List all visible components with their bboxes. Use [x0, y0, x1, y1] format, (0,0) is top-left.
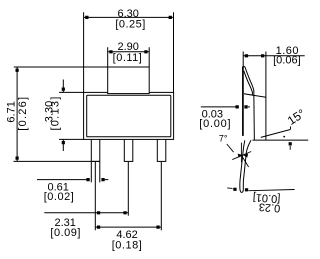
tab lead (front view, top) [108, 67, 150, 94]
svg-text:6.71: 6.71 [5, 101, 17, 122]
dimension 0.23 dim line left segment [227, 187, 232, 190]
side tab bend inner curve [244, 71, 253, 95]
dimension 6.71 arrowheads [16, 69, 19, 160]
7 deg leader line [227, 144, 234, 152]
side tab tip (top) [242, 66, 245, 68]
7 deg crossing measure line [232, 152, 251, 160]
dimension 6.71 dim line (left) [16, 67, 18, 161]
dimension 6.71 bottom extension line [14, 160, 100, 162]
7 deg arrowheads [238, 154, 249, 158]
svg-text:[0.11]: [0.11] [113, 52, 143, 64]
dimension 0.23 text (rotated 180) [258, 200, 280, 213]
side tab back face (thick) [242, 67, 244, 136]
dimension 0.03 tail [248, 106, 250, 108]
dimension 6.30 dim line [84, 16, 174, 18]
dimension 1.60 arrowheads [245, 54, 264, 57]
15 deg leader elbow [290, 126, 292, 129]
dimension 2.90 arrowheads [109, 50, 147, 53]
svg-text:[0.25]: [0.25] [115, 18, 146, 30]
lead 3 (front view, right pin) [157, 138, 166, 161]
svg-text:[0.26]: [0.26] [17, 96, 29, 131]
dimension 0.23 dim line right segment [249, 190, 295, 191]
dimension 0.03 dim line [201, 106, 236, 108]
dimension 3.30 arrowheads [62, 88, 65, 145]
dimension 3.30 extension lines [59, 92, 84, 139]
svg-text:0.23: 0.23 [258, 200, 280, 213]
svg-text:[0.09]: [0.09] [50, 227, 81, 239]
15 deg up arrow [289, 142, 292, 145]
svg-text:[0.06]: [0.06] [273, 55, 301, 67]
svg-text:[0.02]: [0.02] [44, 191, 75, 203]
package body inner outline (front view) [87, 95, 171, 137]
7 deg reference vertical line [240, 143, 242, 163]
dimension 0.03 arrowheads [236, 105, 248, 108]
dimension 0.61 dim line segments [37, 179, 108, 181]
svg-text:[0.18]: [0.18] [112, 239, 143, 251]
side lower lead inner edge [242, 140, 251, 192]
side lower lead outer edge [240, 140, 245, 192]
lead center extension lines [95, 162, 161, 230]
svg-text:[0.13]: [0.13] [49, 95, 61, 130]
side body bottom edge + 15 deg reference line [252, 139, 308, 141]
dimension 1.60 dim line [243, 55, 305, 57]
dimension 0.61 extension lines (lead 1 edges) [91, 162, 100, 183]
svg-text:15°: 15° [285, 106, 308, 128]
side body right edge [265, 52, 267, 141]
dimension 6.30 arrowheads [85, 16, 172, 19]
side tab bend outer curve [245, 68, 254, 140]
package body outer outline (front view) [84, 92, 174, 139]
dimension 0.61 arrowheads [86, 178, 104, 181]
dimension 6.71 top extension line [14, 66, 108, 68]
dimension 3.30 arrow tails (outside) [62, 80, 64, 152]
15 deg angle arc dot [283, 136, 285, 138]
svg-text:7°: 7° [219, 133, 228, 143]
dimension 4.62 dim line [95, 226, 161, 228]
dimension 2.90 extension lines [108, 47, 150, 67]
side body top edge (sloped) [244, 94, 266, 98]
dimension 4.62 arrowheads [97, 226, 160, 229]
dimension 2.31 dim line [44, 212, 128, 214]
dimension 1.60 extension lines [242, 52, 244, 67]
lead 1 (front view, left pin) [91, 138, 100, 161]
dimension [0.01] text (rotated 180) [252, 191, 280, 205]
15 deg slant line [261, 130, 291, 138]
dimension 2.90 dim line [108, 51, 150, 53]
dimension 0.23 arrowheads [233, 188, 248, 192]
lead 2 (front view, center pin) [124, 138, 133, 161]
7 deg measure line lower-right segment [243, 158, 249, 168]
svg-text:[0.00]: [0.00] [199, 118, 231, 130]
dimension 2.31 arrowheads [97, 211, 127, 214]
dimension 6.30 extension lines [84, 12, 174, 92]
